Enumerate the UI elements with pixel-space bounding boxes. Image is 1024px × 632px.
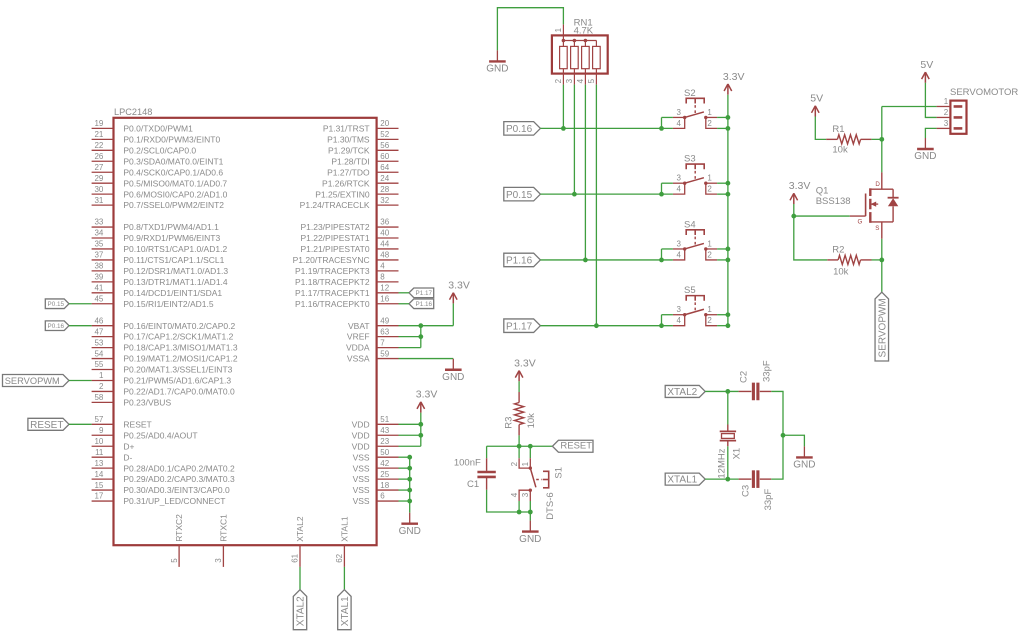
svg-text:X1: X1 (732, 448, 743, 460)
wire C2 to right rail (771, 391, 783, 435)
svg-text:14: 14 (94, 470, 103, 479)
net label RESET flag (552, 440, 593, 452)
U1 right pin names (293, 124, 370, 507)
wire S2 pin3 net (662, 116, 673, 118)
junction drain R1 (879, 137, 884, 142)
wire drain vertical (881, 106, 883, 172)
svg-text:P0.16: P0.16 (506, 124, 533, 135)
junction S4 net column (583, 258, 588, 263)
svg-text:P0.9/RXD1/PWM6/EINT3: P0.9/RXD1/PWM6/EINT3 (123, 233, 220, 243)
svg-text:VSSA: VSSA (347, 354, 370, 364)
ground GND (914, 138, 936, 162)
svg-text:1: 1 (707, 108, 712, 117)
svg-text:59: 59 (380, 349, 389, 358)
svg-text:P0.8/TXD1/PWM4/AD1.1: P0.8/TXD1/PWM4/AD1.1 (123, 222, 219, 232)
svg-text:3: 3 (677, 239, 682, 248)
junction S3 net column (572, 192, 577, 197)
net label P1.16 switch (504, 253, 541, 267)
svg-text:DTS-6: DTS-6 (545, 492, 556, 519)
svg-text:31: 31 (94, 196, 103, 205)
svg-text:2: 2 (944, 108, 949, 117)
wire XTAL1 row (705, 478, 738, 480)
junction S1 bottom B (528, 510, 533, 515)
svg-text:5V: 5V (810, 93, 823, 105)
ground GND (519, 521, 541, 545)
IC U1 LPC2148 microcontroller body (114, 107, 377, 545)
svg-text:4: 4 (677, 250, 682, 259)
svg-text:1: 1 (707, 239, 712, 248)
svg-text:R2: R2 (832, 245, 844, 256)
wire P1.16 row (540, 259, 673, 261)
svg-text:P0.15: P0.15 (48, 301, 65, 308)
svg-text:3: 3 (565, 78, 574, 83)
svg-text:29: 29 (94, 174, 103, 183)
wire pin 3 to GND (925, 128, 936, 138)
wire RN1 pin 3 down (573, 85, 575, 195)
svg-text:2: 2 (707, 250, 712, 259)
svg-text:40: 40 (380, 229, 389, 238)
svg-text:GND: GND (793, 460, 815, 471)
wire P0.16 row (540, 127, 673, 129)
wire 3.3V riser (452, 303, 454, 325)
svg-text:3.3V: 3.3V (448, 280, 470, 292)
wire 3.3V rail (727, 95, 729, 326)
svg-text:P0.6/MOSI0/CAP0.2/AD1.0: P0.6/MOSI0/CAP0.2/AD1.0 (123, 189, 227, 199)
wire gate node to gate (794, 215, 850, 217)
svg-text:RTXC1: RTXC1 (218, 514, 228, 542)
wire S2 left riser (661, 117, 663, 128)
svg-text:P0.14/DCD1/EINT1/SDA1: P0.14/DCD1/EINT1/SDA1 (123, 288, 222, 298)
svg-text:4.7K: 4.7K (574, 25, 594, 36)
wire S4 pin2 to 3.3V rail (717, 259, 728, 261)
svg-text:39: 39 (94, 273, 103, 282)
svg-text:VREF: VREF (347, 332, 370, 342)
svg-text:3: 3 (521, 492, 530, 497)
junction crystal GND rail (781, 433, 786, 438)
junction S5 left (659, 323, 664, 328)
svg-text:VSS: VSS (353, 463, 370, 473)
wire VSS pin 25 (399, 478, 410, 480)
svg-text:P0.2/SCL0/CAP0.0: P0.2/SCL0/CAP0.0 (123, 145, 196, 155)
svg-text:42: 42 (380, 459, 389, 468)
supply 3.3V VBAT (448, 280, 470, 304)
svg-text:P0.4/SCK0/CAP0.1/AD0.6: P0.4/SCK0/CAP0.1/AD0.6 (123, 167, 223, 177)
svg-text:P1.26/RTCK: P1.26/RTCK (322, 178, 370, 188)
junction reset node B (528, 444, 533, 449)
svg-text:P0.17/CAP1.2/SCK1/MAT1.2: P0.17/CAP1.2/SCK1/MAT1.2 (123, 332, 233, 342)
net label P0.15 (45, 299, 69, 309)
svg-text:100nF: 100nF (454, 458, 481, 469)
svg-text:28: 28 (380, 185, 389, 194)
wire VSS pin 6 (399, 500, 410, 502)
svg-text:VDD: VDD (352, 419, 370, 429)
svg-text:P1.25/EXTIN0: P1.25/EXTIN0 (315, 189, 370, 199)
svg-text:52: 52 (380, 130, 389, 139)
svg-text:P0.13/DTR1/MAT1.1/AD1.4: P0.13/DTR1/MAT1.1/AD1.4 (123, 277, 228, 287)
svg-text:4: 4 (510, 492, 519, 497)
svg-text:38: 38 (94, 262, 103, 271)
wire 3.3V to gate node (793, 204, 795, 216)
svg-text:50: 50 (380, 448, 389, 457)
svg-text:VSS: VSS (353, 496, 370, 506)
U1 left pin names (123, 124, 237, 507)
supply 3.3V switch rail (723, 71, 745, 95)
wire S3 pin1 to 3.3V rail (717, 182, 728, 184)
wire C3 to right rail (771, 435, 783, 479)
wire VBAT-VDDA vertical (420, 326, 422, 348)
svg-text:18: 18 (380, 481, 389, 490)
wire pin 12 to P1.17 (399, 292, 410, 294)
wire RN1 pin 1 to GND (497, 8, 563, 51)
resistor R2 10k (827, 245, 871, 278)
wire S1 to GND (529, 512, 531, 521)
wire P0.15 row (540, 193, 673, 195)
U1 left pin stubs (92, 128, 114, 501)
svg-text:C3: C3 (740, 485, 751, 497)
svg-text:5: 5 (170, 558, 179, 563)
svg-text:S1: S1 (554, 467, 565, 479)
svg-text:63: 63 (380, 327, 389, 336)
svg-text:4: 4 (576, 78, 585, 83)
svg-text:VSS: VSS (353, 452, 370, 462)
junction S3 left (659, 192, 664, 197)
svg-text:R3: R3 (504, 417, 515, 429)
svg-text:P0.10/RTS1/CAP1.0/AD1.2: P0.10/RTS1/CAP1.0/AD1.2 (123, 244, 227, 254)
switch S1 DTS-6 (510, 446, 565, 520)
wire S5 pin1 to 3.3V rail (717, 314, 728, 316)
wire RESET to pin 57 (69, 423, 92, 425)
svg-text:P0.30/AD0.3/EINT3/CAP0.0: P0.30/AD0.3/EINT3/CAP0.0 (123, 485, 230, 495)
svg-text:G: G (857, 219, 862, 226)
svg-text:25: 25 (380, 470, 389, 479)
svg-text:1: 1 (99, 371, 104, 380)
svg-text:BSS138: BSS138 (816, 196, 851, 207)
svg-text:4: 4 (677, 119, 682, 128)
svg-text:P1.16: P1.16 (506, 256, 533, 267)
svg-text:D: D (875, 181, 880, 188)
wire gate node down to R2 (794, 216, 828, 260)
svg-text:44: 44 (380, 240, 389, 249)
junction S2 left (659, 126, 664, 131)
svg-text:3.3V: 3.3V (416, 389, 438, 401)
svg-text:SERVOMOTOR: SERVOMOTOR (950, 87, 1018, 98)
svg-text:S2: S2 (684, 88, 696, 99)
junction S5 pin1 rail (726, 312, 731, 317)
wire VSS pin 18 (399, 489, 410, 491)
net label XTAL1 flag (665, 473, 705, 486)
junction S3 pin2 rail (726, 192, 731, 197)
svg-text:P1.31/TRST: P1.31/TRST (323, 124, 370, 134)
svg-text:41: 41 (94, 284, 103, 293)
svg-text:48: 48 (380, 251, 389, 260)
svg-text:RTXC2: RTXC2 (174, 514, 184, 542)
switch S3 (673, 154, 717, 194)
junction source R2 (879, 258, 884, 263)
svg-text:5V: 5V (920, 59, 933, 71)
wire 3.3V to R3 (518, 381, 520, 392)
svg-text:2: 2 (707, 316, 712, 325)
wire P0.16 to pin 46 (69, 325, 92, 327)
svg-text:P1.18/TRACEPKT2: P1.18/TRACEPKT2 (295, 277, 370, 287)
svg-text:4: 4 (677, 316, 682, 325)
svg-text:GND: GND (914, 151, 936, 162)
svg-text:RESET: RESET (123, 419, 151, 429)
supply 5V servo (920, 59, 933, 83)
U1 bottom pin stubs (179, 545, 344, 567)
svg-text:4: 4 (380, 262, 385, 271)
net label XTAL2 vertical (293, 590, 306, 630)
svg-text:P1.17/TRACEPKT1: P1.17/TRACEPKT1 (295, 288, 370, 298)
wire VDD pin 23 (399, 445, 421, 447)
svg-text:13: 13 (94, 459, 103, 468)
supply 3.3V gate (789, 180, 811, 204)
junction VDD 51 (418, 422, 423, 427)
junction reset node A (517, 444, 522, 449)
wire RN1 pin 4 down (584, 85, 586, 260)
svg-text:P1.20/TRACESYNC: P1.20/TRACESYNC (293, 255, 370, 265)
svg-text:19: 19 (94, 119, 103, 128)
wire R2 to source (872, 259, 882, 261)
svg-text:26: 26 (94, 152, 103, 161)
wire source down to SERVOPWM (881, 239, 883, 292)
wire R3 to reset node (518, 435, 520, 446)
svg-text:S: S (875, 225, 879, 232)
net label XTAL1 vertical (338, 590, 351, 630)
svg-text:10: 10 (94, 437, 103, 446)
svg-text:60: 60 (380, 152, 389, 161)
svg-text:3: 3 (677, 174, 682, 183)
wire R1 to drain (871, 138, 881, 140)
svg-text:P0.22/AD1.7/CAP0.0/MAT0.0: P0.22/AD1.7/CAP0.0/MAT0.0 (123, 387, 235, 397)
U1 bottom pin names (174, 514, 349, 542)
resistor R3 10k (504, 392, 538, 435)
svg-text:9: 9 (99, 426, 104, 435)
svg-text:58: 58 (94, 393, 103, 402)
svg-text:XTAL1: XTAL1 (339, 516, 349, 542)
junction VSS 18 (407, 488, 412, 493)
svg-text:SERVOPWM: SERVOPWM (5, 376, 60, 386)
svg-text:XTAL1: XTAL1 (667, 475, 697, 486)
svg-text:C1: C1 (467, 479, 479, 490)
svg-text:15: 15 (94, 481, 103, 490)
svg-text:S5: S5 (684, 285, 696, 296)
junction VREF (418, 334, 423, 339)
svg-text:54: 54 (94, 349, 103, 358)
svg-text:P1.23/PIPESTAT2: P1.23/PIPESTAT2 (300, 222, 369, 232)
svg-text:47: 47 (94, 327, 103, 336)
resistor network RN1 4.7K (552, 17, 608, 84)
svg-text:51: 51 (380, 415, 389, 424)
svg-text:P1.24/TRACECLK: P1.24/TRACECLK (300, 200, 370, 210)
U1 right pin numbers (380, 119, 389, 501)
svg-text:P0.7/SSEL0/PWM2/EINT2: P0.7/SSEL0/PWM2/EINT2 (123, 200, 224, 210)
wire S5 left riser (661, 315, 663, 326)
svg-text:D-: D- (123, 452, 132, 462)
svg-text:3: 3 (677, 305, 682, 314)
wire S3 pin3 net (662, 182, 673, 184)
junction VDD 43 (418, 433, 423, 438)
svg-text:2: 2 (707, 185, 712, 194)
wire S5 pin3 net (662, 314, 673, 316)
svg-text:P0.3/SDA0/MAT0.0/EINT1: P0.3/SDA0/MAT0.0/EINT1 (123, 156, 223, 166)
junction S1 bottom A (517, 510, 522, 515)
wire C1 bottom (487, 490, 531, 512)
svg-text:C2: C2 (738, 371, 749, 383)
svg-text:56: 56 (380, 141, 389, 150)
svg-text:1: 1 (944, 97, 949, 106)
svg-text:49: 49 (380, 316, 389, 325)
net label P1.17 (409, 288, 434, 298)
wire P0.15 to pin 45 (69, 303, 92, 305)
svg-text:VDDA: VDDA (346, 343, 370, 353)
svg-text:RESET: RESET (560, 441, 592, 452)
svg-text:37: 37 (94, 251, 103, 260)
wire VDDA pin 7 (399, 347, 421, 349)
svg-text:GND: GND (486, 64, 508, 75)
svg-text:P1.17: P1.17 (416, 290, 433, 297)
svg-text:21: 21 (94, 130, 103, 139)
net label P0.16 (45, 321, 69, 331)
junction S4 pin2 rail (726, 258, 731, 263)
wire S2 pin2 to 3.3V rail (717, 127, 728, 129)
junction gate node (791, 214, 796, 219)
svg-text:16: 16 (380, 294, 389, 303)
wire S3 pin2 to 3.3V rail (717, 193, 728, 195)
U1 right pin stubs (377, 128, 399, 501)
net label SERVOPWM (3, 374, 70, 386)
wire VSS pin 42 (399, 467, 410, 469)
svg-text:2: 2 (99, 382, 104, 391)
svg-text:62: 62 (335, 553, 344, 562)
svg-text:46: 46 (94, 316, 103, 325)
svg-text:2: 2 (554, 78, 563, 83)
junction VSS 6 (407, 499, 412, 504)
svg-text:P0.23/VBUS: P0.23/VBUS (123, 398, 171, 408)
svg-text:64: 64 (380, 163, 389, 172)
svg-text:3.3V: 3.3V (789, 180, 811, 192)
U1 bottom pin numbers (170, 553, 344, 562)
supply 3.3V VDD (416, 389, 438, 413)
svg-text:P1.30/TMS: P1.30/TMS (327, 134, 370, 144)
junction S2 net column (561, 126, 566, 131)
svg-text:VBAT: VBAT (348, 321, 370, 331)
wire 5V to R1 (815, 117, 826, 140)
junction VSS 50 (407, 455, 412, 460)
junction VSS 42 (407, 466, 412, 471)
wire drain to pin 1 (882, 105, 937, 107)
wire RN1 pin 5 down (595, 85, 597, 326)
svg-text:3: 3 (214, 558, 223, 563)
svg-text:P1.22/PIPESTAT1: P1.22/PIPESTAT1 (300, 233, 369, 243)
svg-text:43: 43 (380, 426, 389, 435)
svg-text:57: 57 (94, 415, 103, 424)
svg-text:P1.21/PIPESTAT0: P1.21/PIPESTAT0 (300, 244, 369, 254)
svg-text:2: 2 (707, 119, 712, 128)
capacitor C2 33pF (738, 360, 772, 400)
junction S2 pin1 rail (726, 115, 731, 120)
net label P1.16 (409, 299, 434, 309)
svg-text:27: 27 (94, 163, 103, 172)
svg-text:P0.31/UP_LED/CONNECT: P0.31/UP_LED/CONNECT (123, 496, 225, 506)
wire P1.17 row (540, 325, 673, 327)
svg-text:GND: GND (399, 526, 421, 537)
wire VDD pin 51 (399, 423, 421, 425)
svg-text:3.3V: 3.3V (514, 357, 536, 369)
svg-text:P0.16/EINT0/MAT0.2/CAP0.2: P0.16/EINT0/MAT0.2/CAP0.2 (123, 321, 235, 331)
svg-text:1: 1 (521, 461, 530, 466)
net label RESET (28, 418, 69, 431)
svg-text:20: 20 (380, 119, 389, 128)
wire S4 pin3 net (662, 248, 673, 250)
svg-text:33pF: 33pF (761, 360, 772, 382)
svg-text:P0.29/AD0.2/CAP0.3/MAT0.3: P0.29/AD0.2/CAP0.3/MAT0.3 (123, 474, 235, 484)
wire VDD pin 43 (399, 434, 421, 436)
switch S5 (673, 285, 717, 325)
wire VREF pin 63 (399, 336, 421, 338)
svg-text:XTAL2: XTAL2 (667, 387, 697, 398)
ground GND (399, 513, 421, 537)
wire SERVOPWM to pin 1 (69, 379, 92, 381)
junction XTAL1 (725, 477, 730, 482)
svg-text:P0.16: P0.16 (48, 323, 65, 330)
connector SERVOMOTOR (937, 87, 1019, 134)
svg-text:P0.19/MAT1.2/MOSI1/CAP1.2: P0.19/MAT1.2/MOSI1/CAP1.2 (123, 354, 237, 364)
svg-text:RESET: RESET (30, 420, 63, 431)
svg-text:P0.15/RI1/EINT2/AD1.5: P0.15/RI1/EINT2/AD1.5 (123, 299, 214, 309)
wire XTAL1 pin 62 down (343, 567, 345, 590)
svg-text:22: 22 (94, 141, 103, 150)
wire VBAT pin 49 to 3.3V (399, 325, 454, 327)
switch S2 (673, 88, 717, 128)
net label XTAL2 flag (665, 385, 705, 398)
svg-text:33: 33 (94, 218, 103, 227)
resistor R1 10k (826, 124, 871, 156)
svg-text:17: 17 (94, 492, 103, 501)
junction XTAL2 (725, 389, 730, 394)
svg-text:P0.15: P0.15 (506, 190, 533, 201)
svg-text:10k: 10k (832, 144, 848, 155)
svg-text:24: 24 (380, 174, 389, 183)
svg-text:P0.11/CTS1/CAP1.1/SCL1: P0.11/CTS1/CAP1.1/SCL1 (123, 255, 224, 265)
svg-text:32: 32 (380, 196, 389, 205)
wire XTAL2 pin 61 down (299, 567, 301, 590)
svg-text:VDD: VDD (352, 430, 370, 440)
wire 5V to pin 2 (925, 83, 936, 118)
wire VSSA pin 59 to GND (399, 358, 454, 360)
wire S5 pin2 to 3.3V rail (717, 325, 728, 327)
junction VSS 25 (407, 477, 412, 482)
svg-text:P1.16: P1.16 (416, 301, 433, 308)
capacitor C1 100nF (454, 446, 496, 490)
wire VDD vertical (420, 413, 422, 447)
ground GND (486, 50, 508, 74)
wire S4 pin1 to 3.3V rail (717, 248, 728, 250)
svg-text:P1.16/TRACEPKT0: P1.16/TRACEPKT0 (295, 299, 370, 309)
net label SERVOPWM vertical (875, 292, 889, 361)
svg-text:8: 8 (380, 273, 385, 282)
wire pin 16 to P1.16 (399, 303, 410, 305)
svg-text:45: 45 (94, 294, 103, 303)
svg-text:P0.12/DSR1/MAT1.0/AD1.3: P0.12/DSR1/MAT1.0/AD1.3 (123, 266, 228, 276)
svg-text:4: 4 (677, 185, 682, 194)
svg-text:VSS: VSS (353, 485, 370, 495)
svg-text:GND: GND (519, 534, 541, 545)
svg-text:10k: 10k (833, 267, 849, 278)
svg-text:P0.18/CAP1.3/MISO1/MAT1.3: P0.18/CAP1.3/MISO1/MAT1.3 (123, 343, 237, 353)
svg-text:34: 34 (94, 229, 103, 238)
wire S4 left riser (661, 249, 663, 260)
supply 5V R1 (810, 93, 823, 117)
